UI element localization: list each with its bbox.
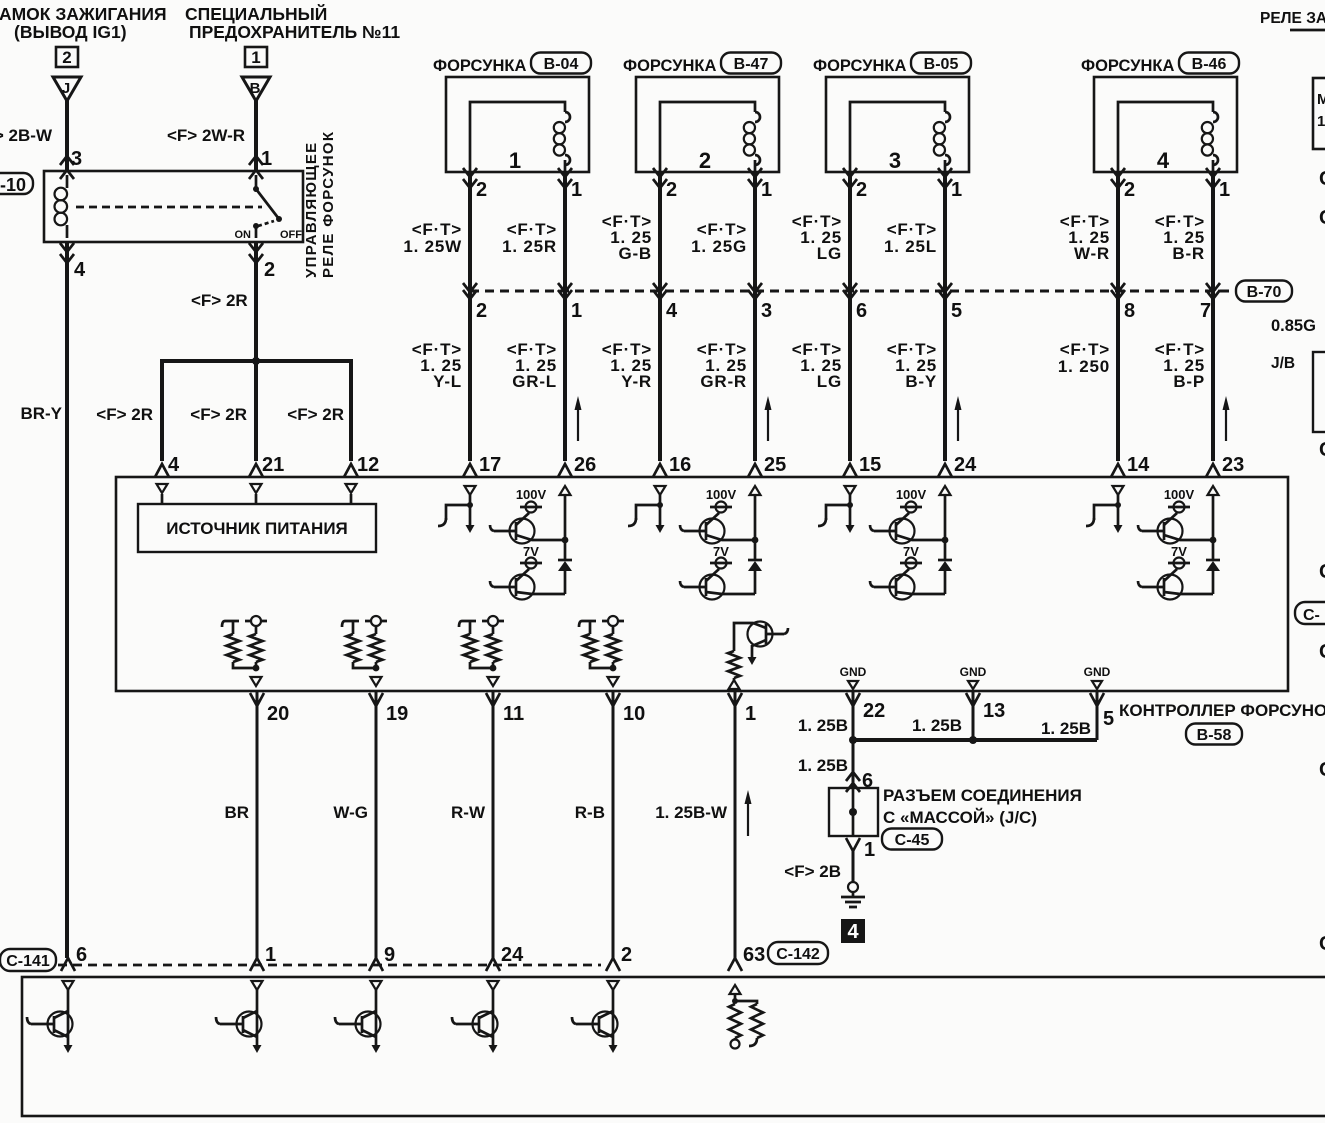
wire B-70 pin 2 to controller pin 17 [463, 291, 477, 477]
injector 3 pin 1 [951, 179, 962, 201]
ground GND marker at pin rail 853 [840, 665, 867, 689]
injector 1 coil [470, 102, 570, 172]
right edge marker C at y=658 [1319, 641, 1325, 663]
label 2R b [190, 405, 247, 424]
driver cell 1: input marker [465, 486, 476, 495]
driver cell 1: zener 100V [516, 487, 547, 513]
svg-text:С «МАССОЙ» (J/C): С «МАССОЙ» (J/C) [883, 808, 1037, 827]
wire BR to bottom connector [256, 692, 259, 958]
wire injector 3 pin 2 to B-70 pin 6 [843, 168, 857, 299]
wire 2R branch b [249, 361, 263, 477]
svg-text:B-58: B-58 [1197, 727, 1232, 744]
wire W-G label [333, 803, 368, 822]
injector 1 pin 1 [571, 179, 582, 201]
relay switch contact [235, 175, 303, 241]
svg-text:23: 23 [1222, 454, 1244, 476]
svg-text:G-B: G-B [618, 244, 652, 263]
controller pin 20 [250, 693, 289, 725]
right edge marker C at y=185 [1319, 168, 1325, 190]
svg-text:ФОРСУНКА: ФОРСУНКА [623, 57, 716, 75]
svg-text:ON: ON [235, 229, 252, 241]
wire B-70 pin 3 to controller pin 25 [748, 291, 762, 477]
svg-text:М: М [1317, 91, 1325, 108]
controller pin 26 [574, 454, 596, 476]
svg-text:1. 250: 1. 250 [1058, 357, 1110, 376]
connector label -10 (cut) [0, 173, 33, 195]
B-70 pin 4 [666, 300, 678, 322]
bottom connector pin 9 [369, 944, 395, 971]
svg-text:1. 25B: 1. 25B [1041, 719, 1091, 738]
wire injector 2 pin 1 to B-70 pin 3 [748, 168, 762, 299]
wire B-70 pin 4 to controller pin 16 [653, 291, 667, 477]
injector 4 label [1081, 57, 1174, 75]
svg-text:<F> 2R: <F> 2R [287, 405, 344, 424]
svg-text:Y-L: Y-L [433, 372, 462, 391]
connector B-58 label [1186, 724, 1242, 745]
svg-text:1: 1 [761, 179, 772, 201]
right edge box N1 (cut) [1313, 78, 1325, 149]
driver cell 2: input marker [655, 486, 666, 495]
bottom connector pin 1 [250, 944, 276, 971]
driver cell 2: zener 100V [706, 487, 737, 513]
flow arrow up [1223, 396, 1230, 441]
svg-text:6: 6 [76, 944, 87, 966]
driver cell 4: output rail [1208, 486, 1219, 560]
wire BR label [224, 803, 249, 822]
svg-text:2: 2 [264, 259, 275, 281]
controller pin 15 [859, 454, 881, 476]
svg-text:4: 4 [666, 300, 678, 322]
wire 1. 25B-W label [655, 803, 728, 822]
svg-text:17: 17 [479, 454, 501, 476]
terminal B (fuse feed) [242, 77, 270, 101]
driver cell 3: gate wire [818, 495, 855, 533]
bottom connector pin 24 [486, 944, 524, 971]
label 1.25B mid [912, 716, 962, 735]
injector control relay box [44, 171, 303, 242]
driver cell 1: zener 7V [520, 544, 542, 569]
wire label 1. 25G upper [691, 220, 747, 256]
right edge marker C at y=224 [1319, 207, 1325, 229]
svg-text:B-70: B-70 [1247, 284, 1282, 301]
svg-text:1: 1 [509, 148, 521, 173]
svg-text:W-G: W-G [333, 803, 368, 822]
label 1.25B right [1041, 719, 1091, 738]
wire B-70 pin 8 to controller pin 14 [1111, 291, 1125, 477]
input marker pin at 162 [157, 484, 168, 504]
pin 12 ctrl [357, 454, 379, 476]
B-70 pin 1 [571, 300, 582, 322]
svg-text:21: 21 [262, 454, 284, 476]
svg-text:B-P: B-P [1173, 372, 1205, 391]
svg-text:C: C [1319, 561, 1325, 583]
input marker pin at 351 [346, 484, 357, 504]
svg-text:3: 3 [761, 300, 772, 322]
driver cell 2: output rail [750, 486, 761, 560]
svg-text:100V: 100V [706, 487, 737, 502]
wire label GR-L lower [507, 340, 557, 391]
svg-text:2: 2 [666, 179, 677, 201]
injector 4 coil [1118, 102, 1218, 172]
svg-text:LG: LG [817, 244, 842, 263]
svg-text:63: 63 [743, 944, 765, 966]
svg-text:ИСТОЧНИК ПИТАНИЯ: ИСТОЧНИК ПИТАНИЯ [166, 519, 348, 538]
injector 4 pin 1 [1219, 179, 1230, 201]
svg-text:B: B [250, 80, 261, 97]
svg-text:1: 1 [571, 300, 582, 322]
connector C-45 label [882, 829, 942, 850]
flow arrow up [765, 396, 772, 441]
svg-text:УПРАВЛЯЮЩЕЕ: УПРАВЛЯЮЩЕЕ [303, 142, 320, 278]
wire B-70 pin 5 to controller pin 24 [938, 291, 952, 477]
wire 2B-W label [0, 126, 53, 145]
driver cell 1: output rail [560, 486, 571, 560]
svg-text:4: 4 [847, 921, 859, 943]
svg-text:<F> 2B: <F> 2B [784, 862, 841, 881]
injector 2 label [623, 57, 716, 75]
svg-text:16: 16 [669, 454, 691, 476]
driver cell 3: zener 100V [896, 487, 927, 513]
controller pin 5 [1090, 693, 1114, 730]
svg-text:1: 1 [864, 839, 875, 861]
label 0.85G (cut) [1271, 317, 1316, 335]
controller pin 23 [1222, 454, 1244, 476]
relay coil [55, 175, 68, 238]
label 1.25B to J/C [798, 756, 848, 775]
svg-text:24: 24 [954, 454, 977, 476]
svg-text:C-141: C-141 [6, 953, 50, 970]
svg-text:B-46: B-46 [1192, 56, 1227, 73]
svg-text:LG: LG [817, 372, 842, 391]
svg-text:100V: 100V [896, 487, 927, 502]
driver cell 1: clamp diode [558, 560, 572, 594]
bias resistor pair 1 [222, 616, 267, 686]
connector B-70 label [1236, 281, 1292, 302]
pin 2 [264, 259, 275, 281]
svg-text:Y-R: Y-R [621, 372, 652, 391]
svg-text:GND: GND [960, 665, 987, 679]
svg-text:1: 1 [1219, 179, 1230, 201]
svg-text:OFF: OFF [280, 229, 302, 241]
svg-text:1. 25L: 1. 25L [884, 237, 937, 256]
svg-text:<F> 2R: <F> 2R [190, 405, 247, 424]
svg-text:25: 25 [764, 454, 786, 476]
B-70 pin 6 [856, 300, 867, 322]
driver cell 3: output rail [940, 486, 951, 560]
wire R-B label [575, 803, 605, 822]
svg-text:4: 4 [1157, 148, 1170, 173]
output transistor Q9 with pull resistor [728, 622, 788, 690]
driver cell 4: zener 7V [1168, 544, 1190, 569]
wire injector 1 pin 1 to B-70 pin 1 [558, 168, 572, 299]
ECU input transistor T4 [452, 981, 499, 1053]
label 1.25B left [798, 716, 848, 735]
driver cell 4: clamp diode [1206, 560, 1220, 594]
driver cell 2: gate wire [628, 495, 665, 533]
ground bus 1.25B [849, 736, 1097, 744]
svg-text:10: 10 [623, 703, 645, 725]
power source block [138, 504, 376, 552]
bottom connector pin 2 [606, 944, 632, 971]
svg-text:GR-R: GR-R [700, 372, 747, 391]
driver cell 2: zener 7V [710, 544, 732, 569]
svg-text:5: 5 [951, 300, 962, 322]
svg-text:22: 22 [863, 700, 885, 722]
wire 2B label [784, 862, 841, 881]
svg-text:19: 19 [386, 703, 408, 725]
wire label W-R upper [1060, 212, 1110, 263]
svg-text:<F> 2R: <F> 2R [191, 291, 248, 310]
svg-text:C: C [1319, 168, 1325, 190]
svg-text:1. 25B: 1. 25B [798, 756, 848, 775]
svg-text:ЗАМОК ЗАЖИГАНИЯ: ЗАМОК ЗАЖИГАНИЯ [0, 4, 167, 24]
bias resistor pair 3 [459, 616, 504, 686]
svg-text:4: 4 [74, 259, 86, 281]
driver cell 2: transistor Q3 [680, 513, 755, 544]
svg-text:J: J [62, 80, 70, 97]
svg-text:B-R: B-R [1172, 244, 1205, 263]
special fuse No.11 label [185, 3, 400, 42]
wire label 1. 25W upper [403, 220, 462, 256]
svg-text:4: 4 [168, 454, 180, 476]
wire R-W to bottom connector [492, 692, 495, 958]
injector controller box [116, 477, 1288, 691]
B-70 pin 2 [476, 300, 487, 322]
svg-text:GND: GND [840, 665, 867, 679]
driver cell 3: transistor Q5 [870, 513, 945, 544]
svg-text:2: 2 [621, 944, 632, 966]
injector 2 body [636, 77, 779, 173]
injector 2 pin 1 [761, 179, 772, 201]
wire 2W-R label [167, 126, 245, 145]
flow arrow up [955, 396, 962, 441]
connector line C-141/C-142 (dashed) [58, 964, 601, 967]
controller pin 22 [846, 693, 885, 722]
engine ECU box [22, 977, 1325, 1116]
controller name [1119, 701, 1325, 720]
svg-text:C: C [1319, 439, 1325, 461]
wire injector 1 pin 2 to B-70 pin 2 [463, 168, 477, 299]
junction node 2R [252, 357, 260, 365]
svg-text:26: 26 [574, 454, 596, 476]
B-70 pin 3 [761, 300, 772, 322]
svg-text:C: C [1319, 759, 1325, 781]
right edge marker C at y=776 [1319, 759, 1325, 781]
svg-text:12: 12 [357, 454, 379, 476]
J/C pin 6 [862, 770, 873, 792]
svg-text:GR-L: GR-L [512, 372, 557, 391]
svg-text:1. 25G: 1. 25G [691, 237, 747, 256]
svg-text:C: C [1319, 207, 1325, 229]
svg-text:5: 5 [1103, 708, 1114, 730]
wire 2B to ground [852, 849, 855, 882]
driver cell 1: gate wire [438, 495, 475, 533]
svg-text:B-Y: B-Y [905, 372, 937, 391]
driver cell 1: transistor Q2 [490, 569, 565, 600]
svg-text:B-47: B-47 [734, 56, 769, 73]
wire 1. 25B-W to bottom connector [734, 692, 737, 958]
connector B-70 dashed line [470, 290, 1236, 293]
svg-text:КОНТРОЛЛЕР ФОРСУНОК: КОНТРОЛЛЕР ФОРСУНОК [1119, 701, 1325, 720]
J/C pin 1 [846, 838, 875, 861]
driver cell 2: clamp diode [748, 560, 762, 594]
svg-text:7: 7 [1200, 300, 1211, 322]
svg-text:СПЕЦИАЛЬНЫЙ: СПЕЦИАЛЬНЫЙ [185, 3, 327, 24]
ECU input transistor T5 [572, 981, 619, 1053]
label 2R c [287, 405, 344, 424]
relay internal dashed link [76, 206, 262, 209]
svg-text:3: 3 [71, 148, 82, 170]
wire 2R branch c [344, 361, 358, 477]
ignition relay label (cut) [1260, 10, 1325, 30]
wire label Y-R lower [602, 340, 652, 391]
injector 3 body [826, 77, 969, 173]
svg-text:1: 1 [745, 703, 756, 725]
svg-text:РАЗЪЕМ СОЕДИНЕНИЯ: РАЗЪЕМ СОЕДИНЕНИЯ [883, 786, 1082, 805]
J/B label [1271, 355, 1295, 372]
right edge marker C at y=950 [1319, 933, 1325, 955]
injector 2 coil [660, 102, 760, 172]
bias resistor pair 2 [342, 616, 387, 686]
svg-text:C-45: C-45 [895, 832, 930, 849]
injector 3 label [813, 57, 906, 75]
svg-text:<F> 2B-W: <F> 2B-W [0, 126, 53, 145]
svg-text:2: 2 [1124, 179, 1135, 201]
svg-text:1. 25R: 1. 25R [502, 237, 557, 256]
driver cell 4: gate wire [1086, 495, 1123, 533]
ground GND marker at pin rail 1097 [1084, 665, 1111, 689]
ECU input transistor T2 [216, 981, 263, 1053]
svg-text:1. 25B: 1. 25B [798, 716, 848, 735]
driver cell 4: transistor Q8 [1138, 569, 1213, 600]
connector C-141 label [0, 949, 56, 971]
controller pin 24 [954, 454, 977, 476]
pin 4 [74, 259, 86, 281]
svg-text:R-W: R-W [451, 803, 486, 822]
bottom connector pin 6 [61, 944, 87, 971]
controller pin 14 [1127, 454, 1150, 476]
wire W-G to bottom connector [375, 692, 378, 958]
svg-text:(ВЫВОД IG1): (ВЫВОД IG1) [14, 22, 127, 42]
relay name (vertical) [303, 131, 337, 278]
chassis ground symbol [841, 882, 865, 907]
wire label 1. 25L upper [884, 220, 937, 256]
wire pin5 down [1096, 692, 1099, 740]
svg-text:1: 1 [1317, 113, 1325, 130]
wire label Y-L lower [412, 340, 462, 391]
input marker pin at 256 [251, 484, 262, 504]
driver cell 2: transistor Q4 [680, 569, 755, 600]
terminal J (ignition feed) [53, 77, 81, 101]
svg-text:РЕЛЕ ЗАЖИГАНИЯ: РЕЛЕ ЗАЖИГАНИЯ [1260, 10, 1325, 27]
injector 4 pin 2 [1124, 179, 1135, 201]
driver cell 3: transistor Q6 [870, 569, 945, 600]
svg-text:2: 2 [856, 179, 867, 201]
svg-text:11: 11 [503, 703, 524, 725]
connector pin box 1 (fuse) [245, 47, 267, 67]
injector 3 coil [850, 102, 950, 172]
wire injector 3 pin 1 to B-70 pin 5 [938, 168, 952, 299]
svg-text:24: 24 [501, 944, 524, 966]
controller pin 16 [669, 454, 691, 476]
wire label B-Y lower [887, 340, 937, 391]
svg-text:ФОРСУНКА: ФОРСУНКА [813, 57, 906, 75]
wire label LG lower [792, 340, 842, 391]
flow arrow up [575, 396, 582, 441]
wire B-70 pin 7 to controller pin 23 [1206, 291, 1220, 477]
wire label G-B upper [602, 212, 652, 263]
svg-text:ФОРСУНКА: ФОРСУНКА [1081, 57, 1174, 75]
svg-text:C-142: C-142 [776, 946, 820, 963]
svg-text:8: 8 [1124, 300, 1135, 322]
svg-text:1: 1 [265, 944, 276, 966]
wire BR-Y relay pin4 down to C-141 pin 6 [60, 242, 74, 958]
controller pin 11 [486, 693, 524, 725]
svg-text:2: 2 [62, 48, 71, 67]
svg-text:100V: 100V [516, 487, 547, 502]
svg-text:13: 13 [983, 700, 1005, 722]
wire label 1. 250 lower [1058, 340, 1110, 376]
svg-text:20: 20 [267, 703, 289, 725]
controller pin 19 [369, 693, 408, 725]
svg-text:C: C [1319, 641, 1325, 663]
ignition switch label [0, 4, 167, 42]
svg-text:1. 25B: 1. 25B [912, 716, 962, 735]
svg-text:РЕЛЕ ФОРСУНОК: РЕЛЕ ФОРСУНОК [320, 131, 337, 278]
svg-text:0.85G: 0.85G [1271, 317, 1316, 335]
svg-text:9: 9 [384, 944, 395, 966]
svg-text:2: 2 [476, 300, 487, 322]
B-70 pin 5 [951, 300, 962, 322]
wire label GR-R lower [697, 340, 747, 391]
driver cell 1: transistor Q1 [490, 513, 565, 544]
label 2R a [96, 405, 153, 424]
svg-text:W-R: W-R [1074, 244, 1110, 263]
B-70 pin 8 [1124, 300, 1135, 322]
bottom connector pin 63 [728, 944, 765, 971]
injector 1 connector B-04 [531, 53, 591, 74]
wire injector 2 pin 2 to B-70 pin 4 [653, 168, 667, 299]
J/B box (cut) [1313, 352, 1325, 432]
svg-text:1: 1 [261, 148, 272, 170]
wire B-70 pin 6 to controller pin 15 [843, 291, 857, 477]
ECU pull-down resistors at pin 63 [729, 985, 763, 1049]
svg-text:R-B: R-B [575, 803, 605, 822]
svg-text:ФОРСУНКА: ФОРСУНКА [433, 57, 526, 75]
svg-text:<F> 2W-R: <F> 2W-R [167, 126, 245, 145]
wire pin13 down [972, 692, 975, 740]
wire label B-R upper [1155, 212, 1205, 263]
controller pin 13 [966, 693, 1005, 722]
wire 1.25B to J/C [846, 740, 860, 792]
bias resistor pair 4 [579, 616, 624, 686]
wire B to relay pin 1 [249, 100, 263, 179]
injector 1 body [446, 77, 589, 173]
right edge marker C at y=456 [1319, 439, 1325, 461]
svg-text:14: 14 [1127, 454, 1150, 476]
flow arrow up on 1.25B-W [745, 790, 752, 836]
ground joint connector J/C C-45 [829, 788, 878, 836]
svg-text:1: 1 [951, 179, 962, 201]
wire 2R branch a [155, 361, 169, 477]
ground point 4 (black box) [841, 919, 865, 943]
wire B-70 pin 1 to controller pin 26 [558, 291, 572, 477]
svg-text:2: 2 [476, 179, 487, 201]
connector C- label (cut) [1295, 602, 1325, 624]
wire pin22 down [852, 692, 855, 740]
connector C-142 label [768, 942, 828, 964]
wire injector 4 pin 1 to B-70 pin 7 [1206, 168, 1220, 299]
